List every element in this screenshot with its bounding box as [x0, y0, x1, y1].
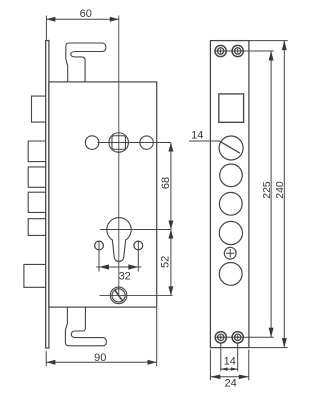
bottom hook bolt	[65, 307, 106, 346]
spindle square hole	[112, 136, 126, 150]
cylinder fixing hole right	[134, 241, 143, 250]
faceplate (side strip)	[46, 41, 49, 349]
bottom cam slot	[115, 290, 122, 301]
dim 90 extension right	[156, 308, 158, 367]
extension plate top	[249, 40, 288, 42]
bolt 2	[28, 141, 46, 162]
arrow 24 right	[239, 375, 249, 380]
bolt hole 2	[219, 192, 242, 215]
spindle row right hole	[140, 136, 153, 149]
dim 225 line	[270, 51, 272, 337]
bolt hole 4	[219, 263, 242, 286]
arrow 32 left	[99, 264, 109, 269]
spindle follower circle	[109, 133, 129, 153]
arrow 68 up	[168, 143, 173, 152]
bolt 6 (bottom deadbolt)	[24, 264, 46, 287]
bottom cam outer circle	[110, 287, 127, 304]
arrow 68 down	[168, 221, 173, 230]
arrow 240 down	[282, 338, 287, 348]
line through bottom screws	[215, 336, 274, 338]
latch square hole	[219, 94, 244, 122]
arrow 225 down	[269, 328, 274, 338]
arrow 60 right	[110, 17, 119, 22]
arrow 14 bottom right	[231, 367, 238, 370]
centerline through spindle row	[97, 142, 171, 144]
top screw right	[232, 45, 243, 56]
bolt hole 1	[220, 164, 243, 187]
arrow 52 up	[168, 230, 173, 239]
dim 32 line	[96, 266, 141, 268]
cylinder fixing hole left	[95, 241, 104, 250]
svg-text:240: 240	[274, 181, 286, 199]
arrow 225 up	[269, 51, 274, 61]
line through top screws	[215, 50, 274, 52]
bolt 4	[28, 192, 46, 212]
dim 14 bottom line	[221, 368, 238, 370]
dim 14 bottom extension right	[237, 343, 239, 371]
svg-text:52: 52	[160, 256, 172, 268]
bottom screw right	[232, 332, 243, 343]
svg-text:60: 60	[80, 8, 92, 20]
arrow 52 down	[168, 286, 173, 295]
leader line 14 top	[189, 140, 220, 142]
arrow 24 left	[210, 375, 220, 380]
dim 60 extension left	[45, 16, 47, 40]
extension plate bottom	[249, 347, 288, 349]
bolt hole 3	[219, 221, 242, 244]
bolt 1 (top deadbolt)	[32, 96, 46, 122]
bottom screw left	[215, 332, 226, 343]
bolt 3	[28, 167, 46, 187]
arrow 32 right	[128, 264, 138, 269]
cylinder hole with slot (14)	[219, 136, 243, 160]
spindle row left hole	[85, 136, 99, 150]
centerline through bottom cam	[100, 294, 173, 296]
dim 14 bottom extension left	[220, 343, 222, 371]
svg-text:14: 14	[224, 355, 236, 367]
arrow 240 up	[282, 41, 287, 51]
bottom cam inner circle	[112, 289, 125, 302]
bolt 5	[28, 219, 46, 236]
svg-text:90: 90	[94, 352, 106, 364]
arrow 90 left	[46, 360, 55, 365]
dim 24 line	[210, 376, 248, 378]
dim 24 extension right	[248, 350, 250, 381]
centerline through cylinder	[100, 229, 171, 231]
faceplate front plate	[210, 41, 249, 348]
svg-text:24: 24	[224, 378, 236, 390]
svg-text:68: 68	[160, 177, 172, 189]
dim 90 line	[46, 361, 156, 363]
dim 240 line	[283, 41, 285, 348]
arrow 90 right	[148, 360, 157, 365]
euro cylinder profile	[107, 218, 131, 262]
arrow 14 bottom left	[221, 367, 228, 370]
dim 32 extension left	[98, 241, 100, 272]
dim 60 line	[46, 18, 118, 20]
svg-text:225: 225	[261, 181, 273, 199]
centerline vertical (lock body axis)	[118, 16, 120, 296]
dim 24 extension left	[209, 350, 211, 381]
arrow 60 left	[46, 17, 55, 22]
svg-text:32: 32	[119, 271, 131, 283]
top screw left	[215, 45, 226, 56]
svg-text:14: 14	[191, 129, 203, 141]
dim 68/52 line	[170, 143, 172, 296]
top hook bolt	[66, 43, 106, 82]
dim 32 extension right	[137, 241, 139, 272]
dim 90 extension left	[45, 351, 47, 367]
lock body case	[49, 82, 157, 307]
small screw hole with cross	[224, 247, 236, 259]
